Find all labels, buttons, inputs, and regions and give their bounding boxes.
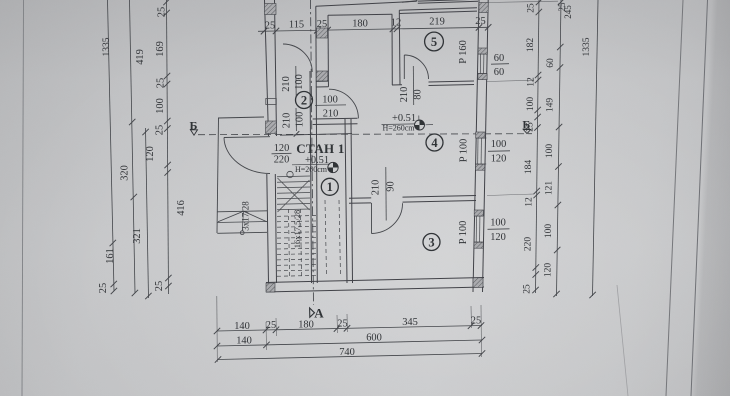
wall room3 top right part (403, 196, 477, 198)
stair direction lines (278, 178, 310, 210)
steps stem line (242, 211, 243, 231)
room3 door arc (372, 203, 403, 233)
wall hatch W10 right end (473, 278, 483, 288)
room5 door arc (404, 55, 428, 79)
stair treads solid (277, 175, 310, 178)
wall W2/W3 shared vertical (building edge) (316, 6, 318, 283)
wall closet bottom band (313, 117, 358, 120)
stair dashed verticals (289, 209, 290, 276)
wall room3 top left part (349, 197, 371, 199)
entry door swing arc (224, 138, 270, 174)
room circle 2 (296, 92, 313, 109)
extension lines bottom (216, 296, 219, 362)
section line Б (dashed) (198, 134, 532, 135)
wall hatch W3 bottom (316, 71, 328, 81)
corridor door arc (283, 44, 312, 72)
stair treads dashed (above cut) (277, 215, 317, 218)
wall joint W1 (266, 99, 277, 105)
room circle 5 (425, 32, 444, 51)
wall W4 outer top line (316, 1, 417, 6)
left dim chain D (wall chain) (167, 0, 169, 294)
wall hatch W9 top (479, 3, 488, 13)
paper edge line 2 (691, 0, 708, 396)
closet door arc (329, 89, 358, 118)
bottom dim line 3 (740) (218, 354, 482, 360)
level symbol stan (328, 162, 338, 172)
room circle 3 (423, 234, 440, 251)
level symbol hall (415, 120, 425, 130)
wall W8 room5 bottom (429, 81, 475, 82)
porch outline (217, 118, 219, 233)
right dim chain A (536, 0, 540, 293)
bottom dim line 1 (217, 326, 482, 332)
section marker A bottom (310, 308, 315, 317)
sheet frame line left (22, 0, 24, 396)
wall W6 foot (392, 84, 402, 86)
wall band above room5 right (418, 1, 478, 3)
left dim chain C (146, 128, 149, 298)
room5 door leaf (403, 55, 405, 79)
top dimension line (258, 27, 488, 31)
wall W3 right line (327, 15, 329, 81)
extension line right top (487, 1, 558, 2)
wall W5 inner top line (328, 14, 392, 15)
bottom dim line 2 (217, 340, 482, 346)
wall W10 bottom outer (266, 278, 484, 283)
wall hatch W1 top (265, 4, 277, 15)
wall W3 end cap (316, 80, 329, 82)
wall hatch W1 door jamb (266, 121, 277, 134)
room circle 4 (426, 134, 443, 151)
room circle 1 (321, 178, 338, 195)
wall W2 corridor left line (310, 71, 312, 283)
window 100 room4 (477, 138, 479, 164)
right dim chain C (1335) (593, 0, 599, 296)
wall hatch W10 left end (266, 283, 275, 292)
outside steps 3x17/28 (217, 211, 267, 212)
wall W1 lower part (267, 174, 269, 283)
left dim chain B (130, 0, 136, 293)
window 100 room3 (475, 216, 477, 242)
entry door 120/220 leaf (224, 136, 270, 139)
level tail hall (426, 124, 434, 126)
window 60 room5 (479, 54, 481, 74)
paper edge line 1 (666, 0, 683, 396)
stair start circle (287, 171, 293, 177)
wall W7 room5 top (399, 8, 477, 10)
wall W9 outer right (473, 0, 479, 292)
wall W4 second outer line (402, 1, 417, 3)
wall W1 outer left upper (265, 0, 269, 136)
wall W6 room5 left (391, 14, 393, 85)
steps start circle (240, 231, 244, 235)
wall hatch W3 (317, 28, 328, 38)
section line A (dash-dot) (311, 0, 314, 305)
right dim chain B (557, 0, 562, 296)
steps direction triangle (218, 211, 267, 222)
paper edge line lower right (617, 285, 628, 396)
extension line right y195 (487, 194, 534, 196)
extension line right y80 (487, 80, 534, 81)
left dim chain A (1335) (108, 0, 115, 291)
room3 door leaf (371, 203, 373, 234)
wall band below closet (280, 134, 352, 136)
wall W11 apartment divider (345, 119, 347, 283)
